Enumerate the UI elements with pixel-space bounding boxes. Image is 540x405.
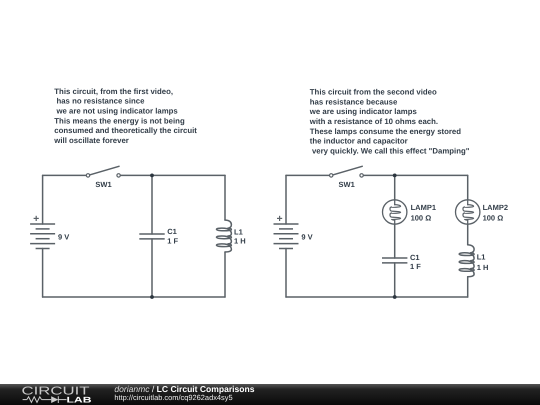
svg-text:http://circuitlab.com/cq9262ad: http://circuitlab.com/cq9262adx4sy5 bbox=[114, 393, 232, 402]
lamp LAMP1 top lead bbox=[394, 200, 396, 205]
inductor L1 coil bbox=[217, 220, 232, 252]
switch SW1 terminal circles (right circuit) bbox=[330, 174, 333, 177]
capacitor C1 plates (right) bbox=[382, 258, 407, 263]
wire: left rail lower (battery minus to bottom wire) bbox=[42, 249, 44, 298]
svg-text:LAMP1: LAMP1 bbox=[411, 203, 436, 212]
svg-text:This circuit, from the first v: This circuit, from the first video, bbox=[54, 87, 173, 96]
lamp LAMP1 bulb circle bbox=[383, 200, 407, 224]
svg-text:1 F: 1 F bbox=[410, 262, 421, 271]
battery V2 9V plates bbox=[274, 224, 299, 249]
node: right circuit top junction bbox=[393, 174, 397, 178]
wire: LAMP2 to L1 bbox=[467, 224, 469, 245]
svg-text:LAB: LAB bbox=[67, 395, 92, 404]
svg-text:C1: C1 bbox=[410, 253, 420, 262]
wire: top-left horizontal to switch SW1 bbox=[286, 174, 329, 176]
wire: LAMP2 branch upper bbox=[467, 175, 469, 200]
junction node dots bbox=[150, 174, 397, 299]
lamp LAMP1 filament coil bbox=[390, 205, 401, 221]
lamp LAMP2 top lead bbox=[467, 200, 469, 205]
logo mini schematic: wire + resistor + diode bbox=[23, 396, 67, 403]
svg-text:9 V: 9 V bbox=[301, 233, 312, 242]
wire: LAMP1 branch upper bbox=[394, 175, 396, 200]
switch SW1 blade bbox=[333, 166, 362, 175]
svg-text:SW1: SW1 bbox=[95, 180, 111, 189]
svg-text:the inductor and capacitor: the inductor and capacitor bbox=[310, 137, 408, 146]
svg-text:1 F: 1 F bbox=[167, 236, 178, 245]
wire: top middle from switch to L1 branch corner bbox=[121, 174, 225, 176]
wire: bottom horizontal left circuit bbox=[43, 296, 225, 298]
svg-text:very quickly. We call this eff: very quickly. We call this effect "Dampi… bbox=[310, 146, 470, 155]
lamp LAMP2 bottom lead bbox=[467, 220, 469, 224]
wire: L1 branch upper bbox=[224, 175, 226, 220]
lamp LAMP2 filament coil bbox=[463, 205, 474, 221]
svg-text:SW1: SW1 bbox=[339, 180, 355, 189]
lamp LAMP2 bulb circle bbox=[456, 200, 480, 224]
wire: LAMP1 to C1 bbox=[394, 224, 396, 258]
svg-text:with a resistance of 10 ohms e: with a resistance of 10 ohms each. bbox=[309, 117, 438, 126]
inductor L1 coil (right) bbox=[459, 245, 474, 277]
svg-text:100 Ω: 100 Ω bbox=[411, 214, 432, 223]
svg-text:has no resistance since: has no resistance since bbox=[54, 97, 145, 106]
wire: left rail lower bbox=[285, 249, 287, 298]
node: right circuit bottom junction bbox=[393, 295, 397, 299]
wire: L1 lower to bottom (right) bbox=[467, 277, 469, 297]
capacitor C1 plates bbox=[139, 234, 164, 239]
wire: C1 branch lower bbox=[151, 239, 153, 297]
svg-text:These lamps consume the energy: These lamps consume the energy stored bbox=[310, 127, 461, 136]
svg-text:L1: L1 bbox=[477, 252, 486, 261]
wire: top from switch across LAMP1 branch to LAMP2 corner bbox=[364, 174, 468, 176]
svg-text:1 H: 1 H bbox=[477, 263, 489, 272]
wire: left rail upper (top wire to battery V1 plus) bbox=[42, 175, 44, 224]
wire: C1 branch upper bbox=[151, 175, 153, 234]
svg-text:LAMP2: LAMP2 bbox=[483, 203, 508, 212]
svg-text:This means the energy is not b: This means the energy is not being bbox=[54, 116, 185, 125]
component labels bbox=[58, 180, 508, 272]
battery V1 9V plates bbox=[30, 224, 55, 249]
svg-text:has resistance because: has resistance because bbox=[310, 97, 398, 106]
wire: top-left horizontal to switch SW1 bbox=[43, 174, 86, 176]
battery plus sign bbox=[277, 216, 282, 221]
wire: bottom horizontal right circuit bbox=[286, 296, 468, 298]
svg-text:will oscillate forever: will oscillate forever bbox=[53, 136, 129, 145]
switch SW1 terminal circles (left circuit) bbox=[86, 174, 363, 177]
svg-text:C1: C1 bbox=[167, 227, 177, 236]
wire: left rail upper bbox=[285, 175, 287, 224]
battery plus sign bbox=[34, 216, 39, 221]
svg-text:we are using indicator lamps: we are using indicator lamps bbox=[309, 107, 418, 116]
lamp LAMP1 bottom lead bbox=[394, 220, 396, 224]
wire: C1 lower to bottom bbox=[394, 263, 396, 297]
svg-text:9 V: 9 V bbox=[58, 233, 69, 242]
node: left circuit top junction bbox=[150, 174, 154, 178]
svg-text:This circuit from the second v: This circuit from the second video bbox=[310, 88, 437, 97]
annotation text block left bbox=[53, 87, 197, 145]
wire: L1 branch lower bbox=[224, 252, 226, 297]
svg-text:100 Ω: 100 Ω bbox=[483, 214, 504, 223]
svg-text:L1: L1 bbox=[234, 227, 243, 236]
svg-text:we are not using indicator lam: we are not using indicator lamps bbox=[54, 107, 178, 116]
annotation text block right bbox=[309, 88, 470, 156]
svg-text:consumed and theoretically the: consumed and theoretically the circuit bbox=[54, 126, 197, 135]
switch SW1 blade bbox=[90, 166, 119, 175]
svg-text:1 H: 1 H bbox=[234, 237, 246, 246]
node: left circuit bottom junction bbox=[150, 295, 154, 299]
